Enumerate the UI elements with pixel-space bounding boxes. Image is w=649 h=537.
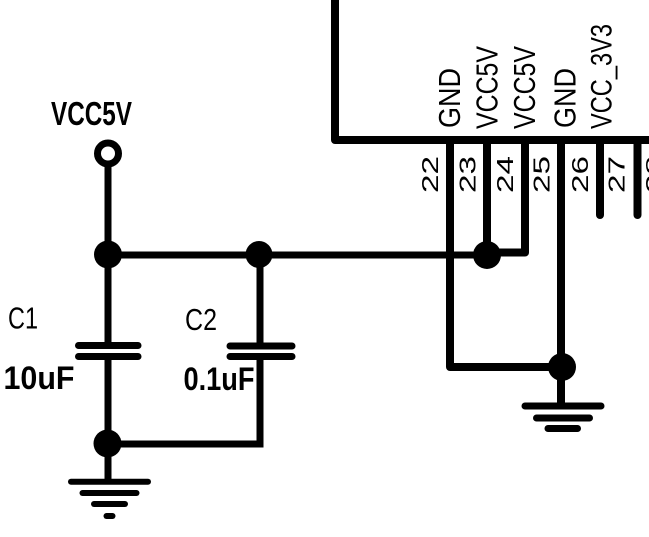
svg-text:28: 28	[641, 156, 649, 193]
pin 23 wire (VCC5V net, down to junction)	[483, 140, 491, 255]
junction: GND at C1/C2	[94, 430, 122, 458]
svg-text:10uF: 10uF	[4, 360, 75, 396]
pin 26 stub (VCC_3V3)	[596, 140, 604, 215]
svg-text:VCC5V: VCC5V	[51, 95, 132, 132]
svg-text:C1: C1	[8, 301, 38, 336]
junction: VCC5V at pins 23/24	[473, 241, 501, 269]
svg-text:27: 27	[604, 156, 630, 193]
wire: horizontal VCC5V bus	[108, 252, 487, 259]
svg-text:26: 26	[567, 156, 593, 193]
junction: GND at pins 22/25	[548, 353, 576, 381]
svg-text:VCC_3V3: VCC_3V3	[586, 24, 619, 129]
power symbol VCC5V (open circle)	[98, 143, 119, 164]
wire: C1 top lead	[105, 255, 112, 345]
wire: C2 bottom lead	[257, 357, 264, 445]
pin 22 wire (GND net, down then right to ground junction)	[450, 140, 562, 367]
svg-text:25: 25	[529, 156, 555, 193]
junction: VCC5V at C2	[246, 241, 273, 268]
wire: C1 bottom lead to ground junction	[105, 357, 112, 482]
svg-text:22: 22	[417, 156, 443, 193]
wire: bottom horizontal C1 to C2	[108, 441, 264, 448]
ground (left, 4 bars)	[71, 482, 148, 516]
capacitor C2	[230, 346, 292, 357]
svg-text:C2: C2	[185, 302, 217, 337]
pin 27 stub	[634, 140, 642, 215]
svg-text:0.1uF: 0.1uF	[184, 361, 255, 397]
capacitor C1	[79, 346, 139, 357]
pin 24 wire (VCC5V net, down then left to junction)	[489, 140, 525, 253]
wire: VCC5V symbol down to junction	[105, 164, 112, 255]
svg-text:GND: GND	[432, 68, 467, 128]
svg-text:24: 24	[492, 156, 518, 193]
pin 25 wire (GND net, down through junction to ground)	[557, 140, 565, 404]
junction: VCC5V at C1	[94, 241, 122, 269]
svg-text:GND: GND	[548, 68, 583, 128]
svg-text:VCC5V: VCC5V	[507, 46, 542, 129]
wire: C2 top lead	[257, 255, 264, 347]
IC U1 body (partial outline, clipped at top/right)	[335, 0, 649, 140]
ground (right, 3 bars)	[525, 406, 601, 429]
svg-text:VCC5V: VCC5V	[470, 46, 505, 129]
svg-text:23: 23	[455, 156, 481, 193]
